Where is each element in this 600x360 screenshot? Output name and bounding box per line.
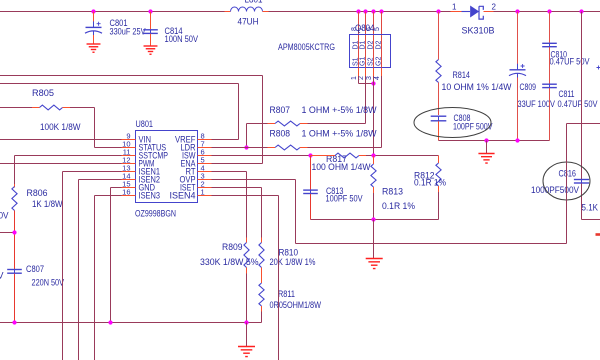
svg-text:D1: D1 (360, 40, 367, 49)
wire bus to VREF (0, 83, 239, 85)
svg-text:7: 7 (358, 27, 365, 31)
resistor R817 (311, 153, 439, 172)
wire ISEN4 down (212, 195, 279, 197)
wire R805 to STATUS (70, 107, 95, 109)
U801 left pin stubs (122, 140, 136, 196)
svg-text:5: 5 (374, 27, 381, 31)
U801 left pin numbers (122, 131, 130, 196)
svg-text:100N 50V: 100N 50V (165, 34, 199, 44)
wire bottom rail (0, 322, 262, 324)
svg-text:R809: R809 (222, 242, 243, 252)
wire R807 to LDR node (246, 124, 248, 148)
svg-text:2: 2 (358, 76, 365, 80)
ellipse around C816 (543, 162, 590, 200)
svg-text:C816: C816 (559, 169, 577, 179)
svg-text:330K 1/8W 5%: 330K 1/8W 5% (200, 257, 259, 267)
svg-text:ISEN3: ISEN3 (139, 191, 161, 201)
svg-text:D2: D2 (376, 40, 383, 49)
svg-text:1 OHM +-5% 1/8W: 1 OHM +-5% 1/8W (302, 129, 377, 139)
ground below C801 (87, 44, 101, 52)
svg-text:V: V (0, 271, 4, 281)
wire right rail down (581, 12, 583, 180)
svg-text:10 OHM 1% 1/4W: 10 OHM 1% 1/4W (442, 82, 512, 92)
svg-text:C807: C807 (26, 264, 44, 274)
node junction C809 top (515, 9, 519, 13)
capacitor C808 (431, 113, 493, 141)
svg-text:ISEN4: ISEN4 (170, 191, 196, 201)
U801 right pin numbers (201, 131, 205, 196)
svg-text:S1: S1 (353, 57, 360, 66)
capacitor C809 (509, 12, 555, 141)
wire ISET to R810 (212, 187, 262, 189)
wire ISEN3 down (95, 195, 122, 197)
wire OVP loop (212, 179, 296, 181)
svg-text:5.1K: 5.1K (582, 203, 599, 213)
svg-text:R805: R805 (32, 88, 54, 98)
svg-text:R811: R811 (278, 289, 295, 299)
ground below C814 (144, 46, 158, 54)
svg-text:1: 1 (452, 3, 457, 12)
U801 right pin names (170, 135, 196, 201)
wire bus to ENA (0, 75, 263, 77)
svg-text:0V: 0V (0, 211, 9, 221)
wire SSTCMP to R806 (15, 155, 122, 157)
wire Q804 G1 down to R807 (365, 68, 367, 77)
ground below R813 (366, 259, 383, 269)
resistor R810 (259, 238, 316, 284)
op-amp U801 box (135, 119, 198, 219)
node junction R813 bottom (371, 217, 375, 221)
wire VIN from left (0, 139, 122, 141)
ellipse around C808 (414, 108, 491, 138)
resistor R807 (247, 105, 377, 126)
wire RT to R809 (212, 171, 247, 173)
svg-text:6: 6 (366, 27, 373, 31)
wire ISEN2 down (79, 179, 122, 181)
wire ground stem (486, 141, 488, 154)
resistor R805 (0, 88, 81, 132)
svg-text:C811: C811 (559, 89, 575, 99)
wire sense bottom rail (311, 219, 439, 221)
svg-text:100PF 50V: 100PF 50V (326, 194, 363, 204)
svg-text:R807: R807 (270, 105, 291, 115)
resistor R806 (12, 184, 63, 269)
svg-text:16: 16 (122, 187, 130, 196)
resistor R811 (259, 283, 321, 323)
wire bottom ground stem (246, 323, 248, 347)
svg-text:330uF 25V: 330uF 25V (110, 27, 146, 37)
node junction C809 bottom (515, 138, 519, 142)
svg-text:R813: R813 (382, 187, 403, 197)
svg-text:1 OHM +-5% 1/8W: 1 OHM +-5% 1/8W (302, 105, 377, 115)
svg-text:L801: L801 (245, 0, 263, 5)
capacitor C807 (7, 264, 64, 323)
off-page connector arrow right edge (596, 233, 600, 236)
svg-text:0.1R 1%: 0.1R 1% (414, 178, 446, 188)
diode D801 SK310B (451, 3, 497, 36)
svg-text:G1: G1 (360, 57, 367, 66)
capacitor C810 (542, 12, 589, 67)
svg-text:R814: R814 (453, 70, 471, 80)
capacitor C813 (303, 156, 362, 220)
node junction C814 top (148, 9, 152, 13)
svg-text:R810: R810 (279, 248, 299, 258)
svg-text:1: 1 (201, 187, 205, 196)
node junction GND net bottom (108, 320, 112, 324)
svg-text:0.1R 1%: 0.1R 1% (382, 201, 415, 211)
wire PWM from left (0, 163, 122, 165)
node junction ISW (308, 153, 312, 157)
svg-text:R808: R808 (270, 129, 291, 139)
svg-text:OZ9998BGN: OZ9998BGN (135, 209, 176, 219)
svg-text:20K 1/8W 1%: 20K 1/8W 1% (270, 257, 316, 267)
svg-text:R806: R806 (27, 188, 48, 198)
svg-text:8: 8 (351, 27, 358, 31)
svg-text:1000PF500V: 1000PF500V (531, 185, 579, 195)
node junction R806-C807 net (12, 230, 16, 234)
resistor R813 (371, 156, 415, 220)
resistor R814 (436, 12, 512, 116)
svg-text:S2: S2 (368, 57, 375, 66)
resistor R808 (212, 129, 382, 150)
U801 right pin stubs (198, 140, 212, 196)
node junction C807 bottom (12, 320, 16, 324)
node junction C801 top (91, 9, 95, 13)
svg-text:0.47UF 50V: 0.47UF 50V (558, 99, 598, 109)
svg-text:47UH: 47UH (238, 17, 259, 27)
capacitor C811 (542, 47, 600, 140)
ground bottom (238, 347, 255, 357)
wire Q804 G2 down to R808 (381, 68, 383, 77)
node junction C810 top (547, 9, 551, 13)
wire GND down (111, 187, 122, 189)
svg-text:U801: U801 (136, 119, 154, 129)
resistor R812 (414, 156, 446, 220)
node junction R809 bottom (244, 320, 248, 324)
node junction S1-S2 tie (371, 81, 375, 85)
wire Q804 S2 down to sense node (373, 68, 375, 77)
node junction right rail top (579, 9, 583, 13)
svg-text:0.47UF 50V: 0.47UF 50V (550, 57, 590, 67)
svg-text:C809: C809 (520, 82, 537, 92)
svg-text:D2: D2 (368, 40, 375, 49)
svg-text:4: 4 (374, 76, 381, 80)
svg-text:1: 1 (351, 76, 358, 80)
capacitor C816 (531, 169, 589, 220)
node junction R814 branch (436, 9, 440, 13)
capacitor C814 (143, 12, 198, 46)
inductor L801 (225, 0, 269, 27)
svg-text:G2: G2 (376, 57, 383, 66)
wire C816 bottom to right edge (582, 219, 600, 221)
svg-text:SK310B: SK310B (462, 26, 495, 36)
svg-text:D1: D1 (353, 40, 360, 49)
node junction S2-R813 (371, 153, 375, 157)
svg-text:220N 50V: 220N 50V (32, 278, 65, 288)
wire Q804 S1 to S2 (358, 68, 360, 77)
resistor R809 (200, 238, 259, 323)
svg-text:APM8005KCTRG: APM8005KCTRG (278, 42, 335, 52)
node junction ground stem (484, 138, 488, 142)
wire ISEN1 down (63, 171, 122, 173)
U801 left pin names (139, 135, 169, 201)
wire top rail (0, 11, 225, 13)
svg-text:3: 3 (366, 76, 373, 80)
wire stub from left edge (0, 232, 15, 234)
ground below cap net (478, 154, 494, 164)
wire R813 ground stem (373, 220, 375, 259)
node junction LDR (244, 145, 248, 149)
capacitor C801 (85, 12, 146, 44)
wire ISW to R817 node (212, 155, 311, 157)
transistor Q804 (350, 9, 391, 80)
svg-text:0R05OHM1/8W: 0R05OHM1/8W (270, 300, 322, 310)
svg-text:100 OHM 1/4W: 100 OHM 1/4W (312, 162, 371, 172)
svg-text:100K 1/8W: 100K 1/8W (40, 122, 81, 132)
wire cap ground net (439, 140, 550, 142)
svg-text:2: 2 (492, 3, 497, 12)
svg-text:1K 1/8W: 1K 1/8W (32, 199, 63, 209)
